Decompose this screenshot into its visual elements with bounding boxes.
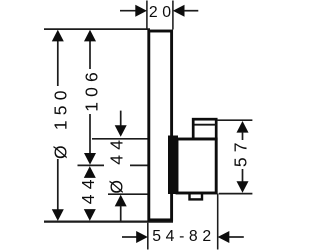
svg-text:Ø 44: Ø 44 [107,135,127,194]
dim 20: right extension line [172,1,174,30]
extension line body-bottom level [108,193,148,195]
dim 54-82: left extension line [147,223,149,250]
baseline (plate bottom tangent, left) [44,221,173,223]
dim 54-82: left tail [122,236,137,238]
dim 20: left arrow [135,5,147,17]
svg-text:Ø 150: Ø 150 [51,85,71,159]
dim 106: bottom arrow [84,153,96,165]
extension line mid (106/44 boundary) [78,164,105,166]
dim 20: right tail [184,10,198,12]
dim 20: left extension line [146,1,148,30]
svg-text:44: 44 [78,174,98,204]
valve body [177,139,216,193]
dim 57: bottom extension line [219,193,253,195]
dim D150: top arrow [52,30,64,42]
dim 106: line upper segment [89,40,91,69]
dim 44: bottom arrow [84,209,96,221]
dim 44: top arrow [84,166,96,178]
dim D150: line upper segment [57,40,59,86]
extension line mid right segment [130,164,149,166]
dim D150: line lower segment [57,159,59,210]
svg-text:54-82: 54-82 [152,228,215,245]
dim 20: left tail [120,10,137,12]
top reference line (plate top tangent, left) [44,28,150,30]
dim 106: line lower segment [89,114,91,154]
cartridge step cap [193,119,216,139]
dim D150: bottom arrow [52,209,64,221]
step cap inner line [195,124,217,126]
dim D44: bottom arrow (pointing up) [115,195,127,207]
bottom tab [190,193,203,200]
dim D44: top stem [120,111,122,127]
dim 57: bottom arrow [237,181,249,193]
dim 20: right arrow [173,5,185,17]
plate-body joint bar [168,136,178,195]
dim 57: lower segment [242,169,244,183]
extension line body-top level [92,138,148,140]
dim 54-82: right extension line [217,194,219,250]
dim 54-82: right tail [229,236,244,238]
dim 57: upper segment [242,132,244,140]
dim 106: top arrow [84,30,96,42]
dim D44: bottom stem [120,206,122,221]
dim 57: top arrow [237,121,249,133]
dim 57: top extension line [217,119,252,121]
dim D44: top arrow (pointing down) [115,125,127,137]
svg-text:20: 20 [149,4,176,21]
plate escutcheon side view [149,31,172,220]
svg-text:106: 106 [82,67,102,112]
svg-text:57: 57 [230,137,250,167]
dim 54-82: right arrow [218,231,230,243]
dim 54-82: left arrow [136,231,148,243]
